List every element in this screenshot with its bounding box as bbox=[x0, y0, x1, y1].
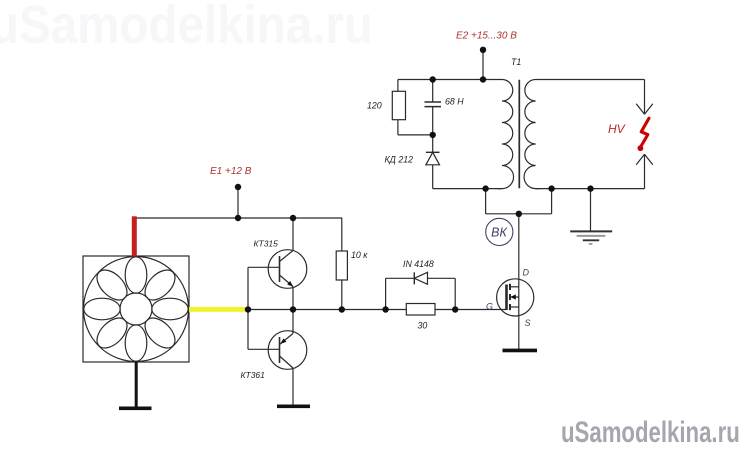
svg-text:120: 120 bbox=[367, 101, 382, 111]
transformer T1 secondary winding bbox=[524, 80, 540, 189]
svg-text:30: 30 bbox=[418, 321, 428, 331]
svg-text:S: S bbox=[525, 318, 531, 328]
transistor Q2 base bar bbox=[279, 337, 281, 363]
transistor Q2 collector bbox=[280, 356, 294, 368]
KT361 ground bar bbox=[277, 405, 310, 409]
diode D2 cathode bar bbox=[426, 151, 440, 153]
fan ground stub thick bbox=[135, 362, 138, 408]
node ground tap bbox=[587, 185, 593, 191]
node bridge left bbox=[482, 185, 488, 191]
svg-text:Т1: Т1 bbox=[511, 57, 521, 67]
node E2 terminal bbox=[480, 47, 486, 53]
svg-text:HV: HV bbox=[608, 122, 626, 136]
transistor Q1 collector bbox=[280, 251, 294, 262]
wire bridge horizontal bbox=[486, 213, 552, 215]
node E1 rail tap bbox=[235, 215, 241, 221]
wire Q2 emitter vertical bbox=[292, 310, 294, 334]
earth ground lead bbox=[590, 189, 592, 232]
wire base vertical to transistors bbox=[247, 267, 249, 349]
yellow signal wire fan to base bbox=[189, 307, 248, 312]
resistor R3 120 body bbox=[392, 91, 405, 119]
resistor R1 10k lead top bbox=[341, 218, 343, 251]
node Q1 collector rail bbox=[290, 215, 296, 221]
svg-text:uSamodelkina.ru: uSamodelkina.ru bbox=[0, 0, 373, 55]
node drain junction bbox=[516, 211, 522, 217]
MOSFET source ground bar bbox=[503, 349, 538, 353]
lightning bolt HV bbox=[640, 118, 649, 147]
node bridge right bbox=[548, 185, 554, 191]
diode D1 IN4148 triangle bbox=[414, 272, 427, 284]
node cap diode junction bbox=[430, 132, 436, 138]
wire bridge right vertical bbox=[551, 189, 553, 214]
transistor Q2 KT361 circle bbox=[268, 331, 307, 370]
resistor R1 10k lead bottom bbox=[341, 280, 343, 310]
svg-text:ВК: ВК bbox=[491, 226, 507, 240]
transformer T1 primary winding bbox=[497, 80, 514, 189]
svg-text:Е1 +12 В: Е1 +12 В bbox=[210, 166, 252, 177]
wire diode branch left bbox=[385, 278, 387, 309]
resistor R1 10k body bbox=[336, 251, 347, 280]
wire top rail left of transformer bbox=[398, 79, 497, 81]
fan blades bbox=[84, 257, 188, 361]
wire diode branch right bbox=[454, 278, 456, 309]
diode D2 KD212 top lead bbox=[432, 135, 434, 152]
transistor Q2 emitter bbox=[280, 334, 294, 345]
transistor Q1 emitter bbox=[280, 275, 294, 287]
transistor Q1 KT315 circle bbox=[268, 250, 307, 289]
node E2 rail tap bbox=[480, 76, 486, 82]
fan frame bbox=[83, 256, 189, 362]
spark gap bottom electrode bbox=[644, 154, 646, 188]
node E1 terminal bbox=[235, 184, 241, 190]
MOSFET VT3 circle bbox=[497, 279, 534, 316]
wire top rail right bbox=[540, 79, 644, 81]
resistor R2 30 body bbox=[406, 304, 435, 316]
wire Q1 emitter vertical bbox=[292, 287, 294, 310]
svg-text:КТ315: КТ315 bbox=[254, 239, 279, 249]
MOSFET stubs bbox=[510, 286, 519, 288]
node diode branch right bbox=[452, 306, 458, 312]
svg-text:G: G bbox=[486, 302, 493, 312]
MOSFET channel plates bbox=[509, 284, 511, 290]
wire Q2 collector to ground bbox=[292, 368, 294, 405]
MOSFET internal vertical bbox=[518, 287, 520, 307]
node diode branch left bbox=[382, 306, 388, 312]
svg-text:IN 4148: IN 4148 bbox=[403, 259, 434, 269]
transistor Q2 emitter arrow bbox=[280, 338, 286, 344]
ВК circle bbox=[486, 218, 513, 245]
transformer T1 core bbox=[518, 80, 520, 188]
wire KT315 collector vertical bbox=[292, 218, 294, 251]
diode D2 bottom lead bbox=[432, 165, 434, 189]
wire KT361 base lead bbox=[248, 348, 280, 350]
svg-text:D: D bbox=[523, 268, 530, 278]
node R1 bottom bbox=[339, 306, 345, 312]
MOSFET bulk arrow bbox=[510, 294, 516, 299]
capacitor C1 plates bbox=[425, 101, 442, 103]
wire R3 bottom horizontal bbox=[398, 134, 433, 136]
earth ground bars bbox=[570, 231, 612, 244]
fan outer circle bbox=[84, 257, 189, 362]
wire bottom rail left part bbox=[433, 188, 503, 190]
node emitters junction bbox=[290, 306, 296, 312]
wire top rail E1 bbox=[136, 217, 342, 219]
fan ground bar bbox=[119, 407, 152, 411]
svg-text:uSamodelkina.ru: uSamodelkina.ru bbox=[561, 415, 740, 449]
node E2 terminal stub bbox=[482, 50, 484, 80]
svg-text:КД 212: КД 212 bbox=[385, 155, 414, 165]
red supply wire to fan bbox=[132, 216, 137, 256]
wire KT315 base lead bbox=[248, 266, 280, 268]
wire after R2 bbox=[435, 309, 507, 311]
resistor R3 120 lead bottom bbox=[397, 120, 399, 135]
wire source vertical bbox=[518, 307, 520, 349]
wire bottom rail right part bbox=[536, 188, 645, 190]
capacitor C1 bottom lead bbox=[432, 107, 434, 135]
transistor Q1 base bar bbox=[279, 256, 281, 282]
wire main gate line bbox=[248, 309, 406, 311]
spark gap top electrode bbox=[644, 80, 646, 115]
fan hub bbox=[120, 293, 152, 325]
svg-text:КТ361: КТ361 bbox=[241, 370, 266, 380]
watermark bottom right bbox=[561, 415, 740, 449]
diode D1 cathode bar bbox=[413, 272, 415, 284]
diode D2 triangle bbox=[426, 152, 440, 165]
svg-text:10 к: 10 к bbox=[351, 250, 368, 260]
faint top-left watermark bbox=[0, 0, 373, 55]
MOSFET gate bar bbox=[505, 285, 508, 311]
node fan signal junction bbox=[245, 306, 251, 312]
capacitor C1 68H top lead bbox=[432, 80, 434, 103]
svg-text:68 Н: 68 Н bbox=[445, 97, 464, 107]
resistor R3 120 lead top bbox=[397, 80, 399, 92]
node RC corner bbox=[430, 76, 436, 82]
wire diode branch top bbox=[386, 277, 456, 279]
transistor Q1 emitter arrow bbox=[287, 281, 293, 287]
wire drain vertical bbox=[518, 214, 520, 287]
wire bridge left vertical bbox=[485, 189, 487, 214]
svg-text:Е2 +15...30 В: Е2 +15...30 В bbox=[456, 31, 517, 42]
node E1 terminal stub bbox=[237, 187, 239, 218]
